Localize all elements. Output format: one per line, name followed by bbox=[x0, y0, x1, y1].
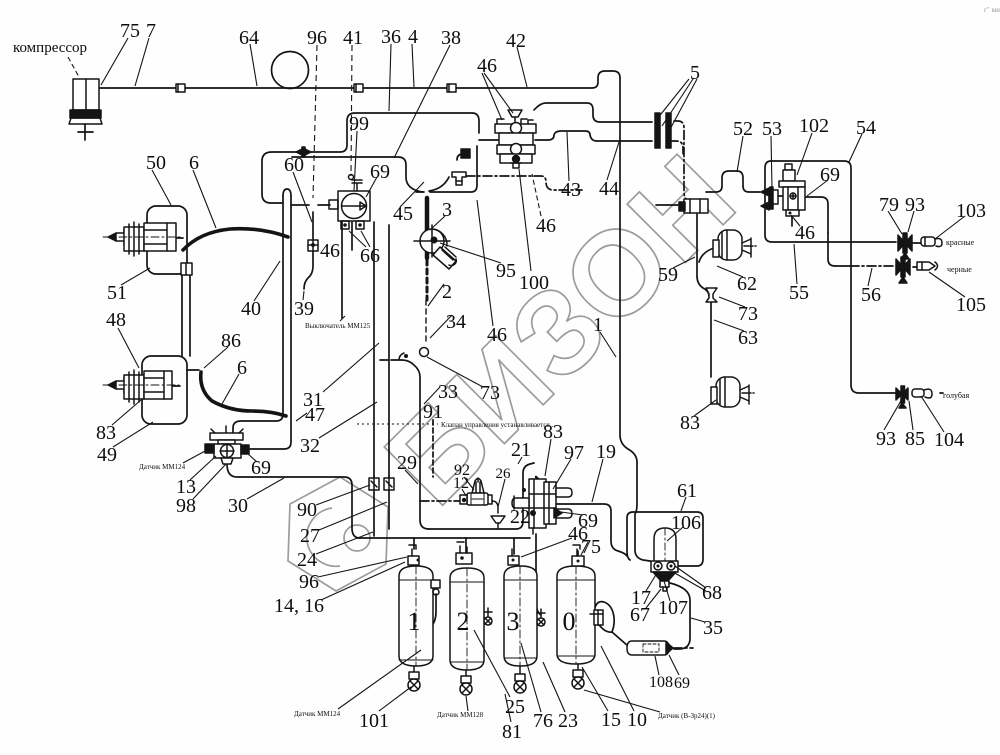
connector fitting 79/93 upper bbox=[898, 233, 912, 259]
svg-text:99: 99 bbox=[349, 113, 369, 135]
leader 3 bbox=[430, 216, 445, 230]
leader Выключатель bbox=[340, 316, 345, 321]
brake chamber 83 right bbox=[711, 377, 754, 407]
leader 86 bbox=[204, 347, 228, 368]
svg-text:2: 2 bbox=[457, 607, 470, 636]
svg-text:компрессор: компрессор bbox=[13, 40, 87, 56]
leader 60 bbox=[293, 172, 312, 222]
leader 19 bbox=[592, 459, 603, 502]
svg-text:86: 86 bbox=[221, 330, 241, 352]
leader 81 bbox=[505, 694, 511, 722]
connector fitting lower (black hose) bbox=[896, 257, 910, 283]
svg-text:Датчик (В-Зр24)(1): Датчик (В-Зр24)(1) bbox=[658, 712, 716, 720]
svg-text:85: 85 bbox=[905, 428, 925, 450]
leader 49 bbox=[113, 422, 153, 447]
svg-text:19: 19 bbox=[596, 441, 616, 463]
leader 43 bbox=[567, 132, 569, 181]
leader 67 bbox=[646, 589, 661, 608]
svg-text:53: 53 bbox=[762, 118, 782, 140]
svg-text:4: 4 bbox=[408, 26, 418, 48]
node loop coil on delivery line bbox=[272, 52, 309, 89]
svg-text:46: 46 bbox=[795, 222, 815, 244]
svg-text:76: 76 bbox=[533, 710, 553, 732]
svg-text:29: 29 bbox=[397, 452, 417, 474]
wire hook 86 and thick hose 6 lower bbox=[187, 369, 199, 371]
leader 66 pair bbox=[349, 231, 370, 247]
leader 92 bbox=[464, 477, 474, 490]
tank3 top fitting bbox=[508, 549, 519, 565]
svg-text:42: 42 bbox=[506, 30, 526, 52]
wire 19 line block to tank0 bbox=[556, 504, 627, 556]
fitting 73 on right riser bbox=[706, 288, 717, 302]
wire regulator drop to pressure switch bbox=[341, 222, 343, 318]
leader 44 bbox=[607, 142, 619, 180]
leader 68 pair bbox=[673, 566, 706, 591]
control valve 92/12 bbox=[460, 478, 505, 528]
wire twin rails vertical corridor bbox=[233, 196, 283, 433]
leader 21 bbox=[518, 457, 522, 464]
svg-text:47: 47 bbox=[305, 404, 325, 426]
fitting on delivery line x180 bbox=[176, 84, 185, 92]
svg-text:105: 105 bbox=[956, 294, 986, 316]
svg-text:50: 50 bbox=[146, 152, 166, 174]
svg-text:24: 24 bbox=[297, 549, 317, 571]
wire long vertical line 1 bbox=[620, 78, 650, 561]
leader 53 bbox=[771, 136, 772, 189]
wire chamber 62 connection bbox=[699, 248, 714, 262]
leader 54 bbox=[849, 134, 862, 162]
svg-text:69: 69 bbox=[820, 164, 840, 186]
brake valve 13/98 bbox=[205, 426, 249, 464]
leader 55 bbox=[794, 244, 797, 284]
wire tank1 side fitting line bbox=[430, 594, 436, 628]
leader 35 bbox=[691, 618, 705, 622]
svg-text:68: 68 bbox=[702, 582, 722, 604]
svg-text:44: 44 bbox=[599, 178, 619, 200]
svg-text:Датчик ММ124: Датчик ММ124 bbox=[139, 463, 186, 471]
fitting on delivery line x359 bbox=[354, 84, 363, 92]
wire manifold left risers dash vertical bbox=[432, 420, 434, 477]
svg-text:41: 41 bbox=[343, 27, 363, 49]
leader Датчик В-Зр24 bbox=[584, 690, 660, 712]
wire line from fitting 73 down to chamber 83 bbox=[710, 300, 712, 377]
tank0 top fitting bbox=[572, 545, 584, 566]
svg-text:46: 46 bbox=[536, 215, 556, 237]
svg-text:59: 59 bbox=[658, 264, 678, 286]
leader 69 right bbox=[807, 180, 828, 196]
wire brake valve to test port arc bbox=[429, 177, 449, 191]
wire box 54 left/bottom to connectors 79/93 bbox=[765, 161, 896, 242]
wire test port dash-dot to right bbox=[466, 176, 582, 190]
wire fitting connections vA vB bbox=[374, 476, 389, 479]
leader 14,16 bbox=[321, 562, 405, 600]
svg-text:40: 40 bbox=[241, 298, 261, 320]
leader 96 top bbox=[313, 45, 317, 198]
wire block right port line stepping to fitting bbox=[535, 131, 652, 141]
compressor bbox=[69, 79, 102, 124]
wire 29 elbow line bbox=[391, 360, 429, 529]
leader 31 bbox=[323, 343, 379, 392]
svg-text:3: 3 bbox=[507, 607, 520, 636]
tank1 drain valve bbox=[408, 666, 420, 691]
svg-text:83: 83 bbox=[680, 412, 700, 434]
wire box 61 around dryer bbox=[627, 512, 703, 566]
tank3 side fitting bbox=[537, 609, 545, 626]
svg-text:96: 96 bbox=[299, 571, 319, 593]
tank3 drain valve bbox=[514, 666, 526, 693]
leader 4 bbox=[412, 44, 414, 87]
svg-text:73: 73 bbox=[480, 382, 500, 404]
leader 93 85 104 bbox=[884, 396, 944, 432]
svg-text:102: 102 bbox=[799, 115, 829, 137]
svg-text:голубая: голубая bbox=[943, 391, 969, 400]
leader Датчик ММ128 bbox=[466, 696, 468, 711]
double union fitting (5) bbox=[655, 113, 671, 148]
svg-text:15: 15 bbox=[601, 709, 621, 731]
fitting 60 valve bbox=[308, 240, 318, 251]
svg-text:3: 3 bbox=[442, 199, 452, 221]
svg-text:красные: красные bbox=[946, 238, 975, 247]
wire line A from left box to rails bbox=[262, 152, 283, 203]
wire dash line into valve 92 bbox=[420, 500, 461, 502]
wire regulator drop long vB bbox=[388, 225, 390, 476]
svg-text:81: 81 bbox=[502, 721, 522, 743]
leader 26 bbox=[498, 479, 505, 507]
svg-text:12: 12 bbox=[453, 475, 469, 492]
leader 79 bbox=[888, 211, 902, 234]
wire left box2 around chamber 48 bbox=[142, 356, 187, 424]
svg-text:черные: черные bbox=[947, 265, 972, 274]
svg-text:79: 79 bbox=[879, 194, 899, 216]
svg-text:34: 34 bbox=[446, 311, 466, 333]
check valve fitting on vB bbox=[384, 478, 394, 490]
svg-text:75: 75 bbox=[120, 20, 140, 42]
svg-text:32: 32 bbox=[300, 435, 320, 457]
leader 27 bbox=[319, 502, 387, 530]
leader 59 bbox=[673, 257, 695, 268]
leader 6 upper bbox=[193, 170, 216, 228]
leader 24 bbox=[316, 532, 373, 554]
wire T stub bbox=[768, 197, 770, 206]
svg-text:46: 46 bbox=[320, 240, 340, 262]
leader 42 bbox=[517, 47, 527, 87]
leader 1 bbox=[600, 332, 616, 357]
wire vent line 39 bbox=[312, 212, 314, 240]
wire left box1 around chamber 51 bbox=[147, 206, 187, 274]
wire blue connector line bbox=[940, 392, 943, 394]
leader 15 bbox=[582, 667, 608, 711]
leader 95 bbox=[440, 243, 501, 263]
svg-text:2: 2 bbox=[442, 281, 452, 303]
leader 46 center bbox=[477, 200, 493, 326]
connector 93/85/104 blue bbox=[896, 386, 932, 408]
fitting on twin drop bbox=[181, 263, 192, 275]
svg-text:91: 91 bbox=[423, 401, 443, 423]
svg-text:67: 67 bbox=[630, 604, 650, 626]
leader 32 bbox=[319, 402, 377, 438]
svg-text:10: 10 bbox=[627, 709, 647, 731]
wire main delivery line from compressor bbox=[99, 71, 620, 88]
leader 61 bbox=[681, 497, 686, 511]
leader 13 bbox=[190, 456, 216, 480]
leader 50 bbox=[152, 170, 171, 205]
leader 73 center bbox=[427, 357, 483, 387]
svg-text:35: 35 bbox=[703, 617, 723, 639]
svg-text:Выключатель ММ125: Выключатель ММ125 bbox=[305, 322, 371, 330]
leader 29 bbox=[405, 470, 418, 484]
svg-text:45: 45 bbox=[393, 203, 413, 225]
wire manifold L1 bbox=[429, 463, 534, 529]
leader 23 bbox=[543, 662, 565, 712]
leader 106 bbox=[667, 527, 683, 541]
leader 62 bbox=[717, 266, 743, 277]
leader 103 bbox=[935, 216, 965, 239]
svg-text:103: 103 bbox=[956, 200, 986, 222]
svg-text:75: 75 bbox=[581, 536, 601, 558]
leader 83 block bbox=[545, 439, 551, 476]
leader 105 bbox=[929, 272, 965, 297]
leader 108 bbox=[655, 656, 659, 675]
svg-text:49: 49 bbox=[97, 444, 117, 466]
wire manifold L2 bbox=[357, 537, 530, 539]
leader 64 bbox=[250, 44, 257, 86]
svg-text:108: 108 bbox=[649, 674, 673, 691]
leader 83 left bbox=[112, 400, 141, 425]
leader 69 regulator bbox=[366, 177, 377, 197]
tank1 top fitting bbox=[408, 545, 420, 565]
wire line B to brake valve (45) bbox=[292, 157, 424, 192]
leader 46 below block bbox=[532, 174, 541, 216]
leader 48 bbox=[118, 328, 139, 368]
leader компрессор bbox=[68, 57, 79, 77]
svg-text:21: 21 bbox=[511, 439, 531, 461]
tank2 top fitting bbox=[456, 542, 472, 564]
svg-text:14, 16: 14, 16 bbox=[274, 595, 324, 617]
tank 2 bbox=[450, 568, 484, 670]
tank0 drain valve bbox=[572, 664, 584, 689]
pressure regulator 99 bbox=[329, 175, 370, 230]
leader 38 bbox=[394, 45, 450, 158]
leader 69 filter bbox=[669, 655, 679, 675]
svg-text:56: 56 bbox=[861, 284, 881, 306]
leader 69 block bbox=[561, 512, 583, 515]
svg-text:95: 95 bbox=[496, 260, 516, 282]
connector 105 bbox=[917, 262, 938, 270]
svg-text:46: 46 bbox=[487, 324, 507, 346]
svg-text:69: 69 bbox=[370, 161, 390, 183]
wire regulator drop long vA bbox=[373, 222, 375, 476]
svg-text:46: 46 bbox=[477, 55, 497, 77]
wire dash-dot from double fitting to lower fitting bbox=[674, 121, 689, 201]
leader Клапан dotted bbox=[357, 423, 438, 425]
leader 45 bbox=[400, 182, 424, 207]
elbow 29 test fitting bbox=[399, 353, 408, 360]
svg-text:98: 98 bbox=[176, 495, 196, 517]
leader 107 bbox=[664, 581, 670, 601]
svg-text:60: 60 bbox=[284, 154, 304, 176]
leader 63 bbox=[714, 320, 744, 331]
wire block top-right port line to y122 bbox=[534, 103, 652, 122]
leader 40 bbox=[254, 261, 280, 301]
check valve fitting on vA bbox=[369, 478, 379, 490]
leader 30 bbox=[247, 478, 284, 499]
svg-text:30: 30 bbox=[228, 495, 248, 517]
leader 12 bbox=[462, 489, 466, 496]
leader 93 upper bbox=[908, 211, 914, 232]
svg-text:100: 100 bbox=[519, 272, 549, 294]
leader 75 bbox=[101, 38, 128, 85]
svg-text:93: 93 bbox=[876, 428, 896, 450]
svg-text:1: 1 bbox=[408, 607, 421, 636]
leader 7 bbox=[135, 38, 149, 86]
wire lower union line dash-dot link bbox=[671, 141, 683, 155]
protection valve block (top center) bbox=[461, 110, 536, 168]
connector 103 red bbox=[921, 237, 942, 247]
wire 30 line from valve 13 bbox=[227, 464, 360, 538]
leader Датчик ММ124 left bbox=[183, 450, 207, 463]
tank2 drain valve bbox=[460, 670, 472, 695]
svg-text:66: 66 bbox=[360, 245, 380, 267]
svg-text:62: 62 bbox=[737, 273, 757, 295]
air dryer 106 bbox=[651, 528, 678, 591]
svg-text:63: 63 bbox=[738, 327, 758, 349]
svg-text:23: 23 bbox=[558, 710, 578, 732]
svg-text:22: 22 bbox=[510, 506, 530, 528]
svg-text:6: 6 bbox=[189, 152, 199, 174]
leader 6 lower bbox=[222, 374, 239, 404]
fitting on delivery line x452 bbox=[447, 84, 456, 92]
leader 46 tanks bbox=[521, 538, 572, 557]
leader 101 bbox=[379, 687, 411, 711]
wire tank drops from manifolds bbox=[414, 538, 514, 554]
leader 51 bbox=[121, 268, 150, 285]
wire compressor stem bbox=[78, 124, 93, 140]
leader 96 bottom bbox=[318, 557, 407, 577]
leader 52 bbox=[737, 136, 743, 172]
tank 0 bbox=[557, 566, 595, 664]
svg-text:106: 106 bbox=[671, 512, 701, 534]
svg-text:Клапан управления устанавливае: Клапан управления устанавливается... bbox=[441, 421, 555, 429]
test port fitting near brake valve bbox=[452, 172, 466, 185]
unloader valve 102 bbox=[779, 164, 805, 216]
leader 75 tanks bbox=[581, 542, 588, 555]
leader 47 bbox=[296, 413, 307, 421]
svg-text:90: 90 bbox=[297, 499, 317, 521]
tank 1 bbox=[399, 566, 433, 666]
wire thick hose 6 upper bbox=[183, 229, 288, 250]
leader 56 bbox=[868, 268, 872, 286]
svg-text:6: 6 bbox=[237, 357, 247, 379]
svg-text:69: 69 bbox=[251, 457, 271, 479]
leader 25 bbox=[474, 630, 510, 697]
brake chamber 51 bbox=[103, 222, 183, 256]
wire line y192 brake valve to riser bbox=[430, 146, 477, 192]
svg-text:1: 1 bbox=[593, 314, 603, 336]
leader 102 bbox=[797, 133, 812, 175]
svg-text:107: 107 bbox=[658, 597, 688, 619]
wire inner path from valve 102 to lower connector bbox=[806, 197, 828, 233]
leader 34 bbox=[430, 315, 452, 338]
wire riser from block bottom to tank3 side fitting bbox=[536, 534, 541, 615]
svg-text:48: 48 bbox=[106, 309, 126, 331]
inlet arrows left of valve 102 bbox=[761, 187, 778, 210]
brake valve 95 with handle bbox=[414, 198, 456, 357]
tank1 side fitting bbox=[431, 580, 440, 595]
svg-text:61: 61 bbox=[677, 480, 697, 502]
wire filter to tank0 loop bbox=[612, 632, 628, 646]
wire line 36 upper bypass bbox=[272, 113, 479, 152]
svg-text:54: 54 bbox=[856, 117, 876, 139]
watermark BIZON logo hexagon bbox=[288, 477, 388, 591]
svg-text:97: 97 bbox=[564, 442, 584, 464]
svg-text:27: 27 bbox=[300, 525, 320, 547]
arrow fitting on line A bbox=[296, 147, 311, 157]
svg-text:93: 93 bbox=[905, 194, 925, 216]
svg-text:73: 73 bbox=[738, 303, 758, 325]
leader 98 bbox=[193, 464, 226, 499]
svg-text:25: 25 bbox=[505, 696, 525, 718]
svg-text:104: 104 bbox=[934, 429, 964, 451]
leader 2 bbox=[428, 284, 444, 306]
leader 76 bbox=[521, 643, 541, 712]
leader 17 bbox=[646, 573, 657, 591]
svg-text:Датчик ММ128: Датчик ММ128 bbox=[437, 711, 484, 719]
leader 33 bbox=[424, 387, 440, 404]
leader 69 left bbox=[247, 453, 257, 462]
svg-text:36: 36 bbox=[381, 26, 401, 48]
leader 39 bbox=[303, 291, 304, 300]
leader 5 fan bbox=[657, 79, 697, 133]
svg-text:Датчик ММ124: Датчик ММ124 bbox=[294, 710, 341, 718]
svg-text:69: 69 bbox=[674, 675, 690, 692]
wire valve 102 bottom stub bbox=[791, 216, 793, 226]
wire riser to protection block left port bbox=[479, 139, 499, 141]
leader 36 bbox=[389, 44, 391, 111]
wire twin drops from box1 to box2 bbox=[182, 274, 190, 356]
leader 46 top pair bbox=[482, 73, 513, 120]
svg-text:52: 52 bbox=[733, 118, 753, 140]
leader 90 bbox=[316, 485, 370, 505]
leader 73 right bbox=[719, 297, 745, 307]
wire line y192 from lower fitting to unloader valve 102 bbox=[706, 171, 760, 192]
leader 97 bbox=[553, 459, 571, 489]
svg-text:0: 0 bbox=[563, 607, 576, 636]
wire teardrop loop at tank 0 bbox=[594, 602, 614, 632]
svg-text:39: 39 bbox=[294, 298, 314, 320]
leader Датчик ММ124 bottom bbox=[338, 650, 421, 709]
wire chamber51 stub bbox=[176, 237, 183, 239]
svg-text:64: 64 bbox=[239, 27, 259, 49]
wire right riser down to chamber circuit bbox=[697, 214, 709, 296]
leader 99 bbox=[354, 131, 357, 191]
tank 3 bbox=[504, 566, 537, 666]
leader 10 bbox=[601, 646, 634, 711]
svg-text:55: 55 bbox=[789, 282, 809, 304]
brake chamber 48 bbox=[103, 370, 179, 404]
wire 35 loop from dryer head to filter bbox=[670, 583, 690, 649]
relay valve block 21/97 bbox=[512, 477, 572, 534]
svg-text:96: 96 bbox=[307, 27, 327, 49]
tank0 side fitting bbox=[590, 610, 603, 625]
leader 100 bbox=[519, 169, 531, 271]
svg-text:83: 83 bbox=[96, 422, 116, 444]
leader 46 near 102 bbox=[791, 215, 800, 226]
svg-text:г" ввв: г" ввв bbox=[984, 6, 1000, 14]
wire block left lower port elbow bbox=[457, 154, 463, 160]
leader 83 right bbox=[694, 400, 716, 416]
wire box 54 outline top/right bbox=[771, 161, 895, 393]
leader 41 bbox=[351, 45, 352, 176]
